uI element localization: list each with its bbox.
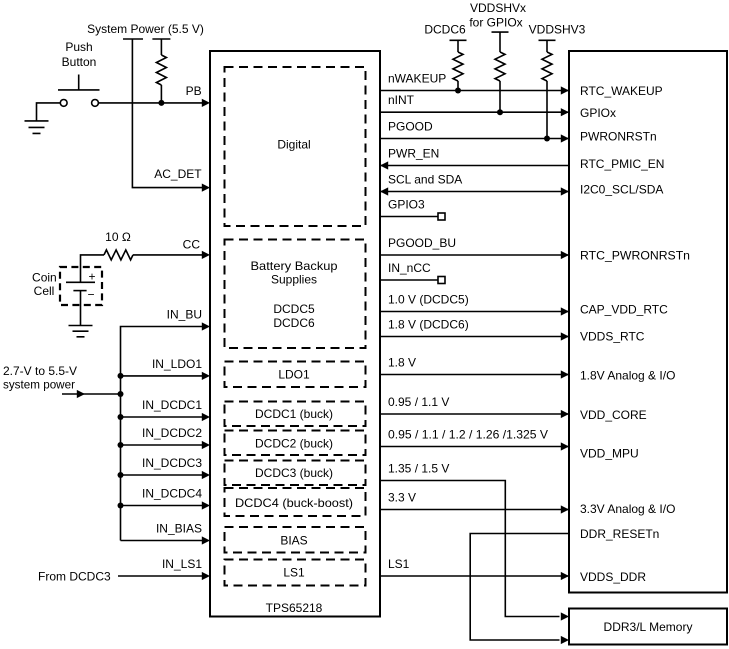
svg-text:1.8 V (DCDC6): 1.8 V (DCDC6) [388, 318, 469, 332]
svg-text:1.8V Analog & I/O: 1.8V Analog & I/O [580, 368, 675, 382]
junction dot bus/IN_DCDC1 [118, 414, 124, 420]
svg-text:TPS65218: TPS65218 [266, 601, 323, 615]
svg-text:DCDC4 (buck-boost): DCDC4 (buck-boost) [235, 496, 353, 510]
svg-text:VDDS_DDR: VDDS_DDR [580, 570, 646, 584]
svg-text:3.3V Analog & I/O: 3.3V Analog & I/O [580, 502, 675, 516]
ground (coin cell) [69, 326, 93, 337]
power rail bar (left, system power to AC_DET) [123, 38, 143, 40]
resistor R1 pull-up on PB [160, 39, 162, 55]
wire battery negative to ground [80, 291, 82, 326]
svg-text:Button: Button [62, 55, 97, 69]
svg-text:GPIOx: GPIOx [580, 106, 616, 120]
svg-text:IN_BIAS: IN_BIAS [156, 522, 202, 536]
input supply bus vertical wire [120, 376, 122, 541]
wire 0.95 / 1.1 V [380, 413, 569, 415]
junction dot PB/R1 [158, 100, 164, 106]
LS1 block [225, 560, 366, 586]
svg-text:3.3 V: 3.3 V [388, 491, 416, 505]
wire IN_DCDC3 [121, 474, 204, 476]
Digital block [225, 67, 366, 226]
wire 1.35 / 1.5 V to DDR memory [380, 481, 560, 617]
svg-text:Supplies: Supplies [271, 272, 317, 286]
wire LS1 out [380, 575, 569, 577]
svg-text:GPIO3: GPIO3 [388, 198, 425, 212]
resistor R4 pull-up nINT [495, 32, 505, 112]
power rail bar DCDC6 [450, 39, 467, 41]
svg-text:System Power (5.5 V): System Power (5.5 V) [87, 22, 204, 36]
svg-text:Push: Push [65, 40, 92, 54]
wire IN_BIAS [121, 540, 204, 542]
svg-text:PGOOD: PGOOD [388, 120, 433, 134]
svg-text:IN_DCDC1: IN_DCDC1 [142, 398, 202, 412]
svg-text:PB: PB [186, 84, 202, 98]
svg-text:DCDC6: DCDC6 [424, 23, 466, 37]
junction dot bus/IN_DCDC2 [118, 442, 124, 448]
wire IN_DCDC1 [121, 416, 204, 418]
svg-text:CAP_VDD_RTC: CAP_VDD_RTC [580, 302, 668, 316]
wire IN_BU [121, 327, 204, 376]
svg-text:for GPIOx: for GPIOx [469, 16, 522, 30]
wire from push button to ground [37, 103, 61, 121]
wire nWAKEUP [380, 90, 569, 92]
open terminal GPIO3 [438, 213, 445, 220]
svg-text:CC: CC [183, 238, 201, 252]
svg-text:system power: system power [3, 378, 75, 392]
svg-text:SCL and SDA: SCL and SDA [388, 173, 462, 187]
svg-text:IN_DCDC4: IN_DCDC4 [142, 487, 202, 501]
svg-text:IN_nCC: IN_nCC [388, 261, 431, 275]
svg-text:Coin: Coin [32, 270, 57, 284]
BIAS block [225, 527, 366, 553]
svg-text:IN_DCDC2: IN_DCDC2 [142, 426, 202, 440]
power rail bar VDDSHVx [492, 31, 509, 33]
wire IN_LS1 [118, 575, 203, 577]
wire system power input [62, 393, 121, 395]
svg-text:0.95 / 1.1 V: 0.95 / 1.1 V [388, 395, 449, 409]
svg-text:DCDC1 (buck): DCDC1 (buck) [255, 407, 333, 421]
svg-text:IN_BU: IN_BU [167, 308, 202, 322]
svg-text:1.35 / 1.5 V: 1.35 / 1.5 V [388, 462, 449, 476]
power rail bar VDDSHV3 [539, 39, 556, 41]
svg-text:VDDSHV3: VDDSHV3 [529, 23, 586, 37]
svg-text:LDO1: LDO1 [278, 367, 310, 381]
resistor R3 pull-up nWAKEUP [453, 40, 463, 90]
svg-text:Cell: Cell [34, 284, 55, 298]
svg-text:PGOOD_BU: PGOOD_BU [388, 236, 456, 250]
DCDC3 block [225, 461, 366, 486]
svg-text:IN_LDO1: IN_LDO1 [152, 357, 202, 371]
svg-text:VDDSHVx: VDDSHVx [470, 1, 526, 15]
wire IN_DCDC4 [121, 505, 204, 507]
svg-text:Digital: Digital [277, 138, 310, 152]
svg-text:LS1: LS1 [388, 557, 410, 571]
coin cell dashed outline [60, 267, 102, 305]
svg-text:DCDC3 (buck): DCDC3 (buck) [255, 466, 333, 480]
wire PWR_EN [380, 165, 569, 167]
svg-text:DCDC5: DCDC5 [273, 302, 315, 316]
chip box U1 TPS65218 [210, 51, 380, 617]
svg-text:Battery Backup: Battery Backup [251, 259, 338, 273]
svg-text:RTC_PWRONRSTn: RTC_PWRONRSTn [580, 248, 690, 262]
arrowhead system power input [77, 390, 85, 398]
wire PGOOD [380, 138, 569, 140]
junction dot bus/IN_DCDC3 [118, 472, 124, 478]
wire IN_nCC [380, 279, 438, 281]
resistor R5 pull-up PGOOD [542, 40, 552, 138]
ground (push button) [25, 121, 49, 133]
svg-text:nINT: nINT [388, 93, 415, 107]
svg-text:VDD_MPU: VDD_MPU [580, 447, 639, 461]
wire SCL and SDA [380, 191, 569, 193]
junction dot PGOOD/R5 [544, 136, 550, 142]
wire 1.8 V [380, 374, 569, 376]
junction dot bus/IN_LDO1 [118, 373, 124, 379]
DCDC4 block [225, 488, 366, 516]
wire PGOOD_BU [380, 254, 569, 256]
svg-text:RTC_WAKEUP: RTC_WAKEUP [580, 84, 663, 98]
Battery Backup Supplies block [225, 240, 366, 349]
svg-text:1.0 V (DCDC5): 1.0 V (DCDC5) [388, 293, 469, 307]
svg-text:From DCDC3: From DCDC3 [38, 569, 111, 583]
wire 1.0 V (DCDC5) [380, 311, 569, 313]
svg-text:IN_DCDC3: IN_DCDC3 [142, 456, 202, 470]
svg-text:2.7-V to 5.5-V: 2.7-V to 5.5-V [3, 364, 77, 378]
LDO1 block [225, 362, 366, 388]
junction dot bus/IN_DCDC4 [118, 503, 124, 509]
svg-text:10 Ω: 10 Ω [105, 230, 131, 244]
svg-text:IN_LS1: IN_LS1 [162, 557, 202, 571]
svg-text:BIAS: BIAS [280, 533, 307, 547]
resistor R2 10 Ohm [104, 250, 133, 260]
svg-text:−: − [87, 288, 94, 302]
svg-text:DDR3/L Memory: DDR3/L Memory [604, 620, 693, 634]
wire 3.3 V [380, 509, 569, 511]
junction dot nWAKEUP/R3 [455, 88, 461, 94]
memory box U3 DDR3/L Memory [569, 609, 727, 645]
wire 1.8 V (DCDC6) [380, 336, 569, 338]
junction dot bus/input [118, 391, 124, 397]
wire AC_DET from system power rail [132, 39, 203, 188]
svg-text:I2C0_SCL/SDA: I2C0_SCL/SDA [580, 182, 663, 196]
wire IN_DCDC2 [121, 444, 204, 446]
svg-text:DCDC6: DCDC6 [273, 316, 315, 330]
svg-text:RTC_PMIC_EN: RTC_PMIC_EN [580, 157, 664, 171]
svg-text:AC_DET: AC_DET [154, 167, 202, 181]
svg-text:0.95 / 1.1 / 1.2 / 1.26 /1.325: 0.95 / 1.1 / 1.2 / 1.26 /1.325 V [388, 428, 548, 442]
open terminal IN_nCC [438, 277, 445, 284]
wire PB [98, 102, 203, 104]
wire GPIO3 [380, 216, 438, 218]
svg-text:DDR_RESETn: DDR_RESETn [580, 527, 659, 541]
junction dot nINT/R4 [497, 109, 503, 115]
svg-text:LS1: LS1 [283, 566, 305, 580]
DCDC2 block [225, 431, 366, 456]
wire nINT [380, 111, 569, 113]
svg-text:VDD_CORE: VDD_CORE [580, 408, 647, 422]
svg-text:nWAKEUP: nWAKEUP [388, 72, 446, 86]
svg-text:1.8 V: 1.8 V [388, 356, 416, 370]
wire DDR_RESETn to DDR memory [470, 534, 569, 641]
power rail bar (right, system power to resistor R1) [152, 38, 170, 40]
svg-text:DCDC2 (buck): DCDC2 (buck) [255, 436, 333, 450]
wire 0.95-1.325 V [380, 446, 569, 448]
svg-text:+: + [88, 269, 95, 283]
svg-text:PWR_EN: PWR_EN [388, 147, 439, 161]
wire IN_LDO1 [121, 375, 204, 377]
svg-text:PWRONRSTn: PWRONRSTn [580, 129, 657, 143]
DCDC1 block [225, 402, 366, 427]
wire CC from coin cell [81, 255, 105, 282]
battery BT1 coin cell [66, 269, 96, 301]
SoC box U2 [569, 51, 727, 593]
svg-text:VDDS_RTC: VDDS_RTC [580, 330, 645, 344]
push button SW1 [58, 75, 100, 107]
wire CC to chip [133, 254, 203, 256]
